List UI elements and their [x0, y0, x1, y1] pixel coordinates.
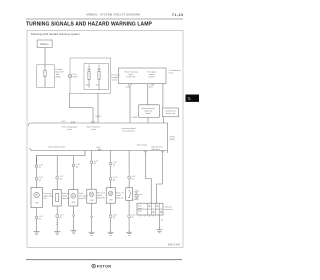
connector C-01 on relay box edge: [68, 74, 78, 79]
lamp L5 label: [116, 192, 124, 200]
wire battery feed: [44, 48, 46, 71]
svg-text:Battery: Battery: [40, 42, 49, 46]
svg-text:21W: 21W: [109, 200, 113, 202]
svg-text:EW71-043: EW71-043: [168, 242, 181, 246]
svg-text:AIRBAG · SYSTEM CIRCUIT DIAGRA: AIRBAG · SYSTEM CIRCUIT DIAGRAM: [86, 13, 141, 17]
lamp L3 front turn LH: [69, 190, 78, 207]
connector C-05: [35, 177, 43, 182]
connector marks on rail B at x145: [144, 151, 147, 153]
harness label instrument: [121, 127, 136, 133]
wire col4: [91, 151, 93, 190]
svg-text:No.4: No.4: [86, 85, 90, 87]
wire col4 lower: [91, 203, 93, 232]
harness label front: [62, 126, 78, 132]
svg-text:panel: panel: [91, 129, 96, 131]
section index tab: [186, 95, 200, 102]
svg-text:21W: 21W: [90, 200, 94, 202]
diagram frame: [27, 30, 183, 247]
svg-text:0.85R: 0.85R: [73, 77, 79, 79]
ground G2: [54, 232, 60, 235]
connector C-22: [109, 162, 117, 167]
splice dots col2: [57, 222, 58, 223]
svg-text:(2): (2): [113, 165, 116, 167]
harness label main: [87, 126, 101, 132]
connector C-26: [109, 215, 117, 220]
ground G4: [89, 232, 95, 235]
svg-text:FOTON: FOTON: [97, 265, 112, 269]
wire switch to flasher: [162, 84, 164, 108]
connector C-33: [128, 215, 136, 220]
svg-text:Showing and hazard warning sys: Showing and hazard warning system: [31, 32, 81, 36]
junction table pin ticks: [141, 215, 153, 217]
switch S1 label: [134, 191, 143, 202]
connector stub B-04: [126, 84, 131, 89]
lamp L3 label: [79, 192, 88, 200]
connector tick col4: [91, 216, 93, 218]
svg-text:lamp LH: lamp LH: [79, 198, 87, 200]
fuse box label: [112, 74, 120, 81]
wire col5 lower: [110, 203, 112, 232]
svg-text:(2): (2): [39, 167, 42, 169]
svg-text:lamp: lamp: [138, 210, 142, 212]
svg-text:lamp LH: lamp LH: [116, 198, 124, 200]
footer rule: [26, 259, 182, 261]
svg-text:(RH side): (RH side): [152, 149, 160, 151]
connector C-24: [109, 177, 117, 182]
svg-text:Main wiring harness: Main wiring harness: [49, 145, 66, 148]
lamp L4 rear turn RH: [87, 189, 96, 203]
svg-text:21W: 21W: [71, 202, 75, 204]
wire col3 lower: [73, 206, 75, 231]
svg-text:No.7: No.7: [96, 85, 100, 87]
svg-text:(timer): (timer): [145, 112, 151, 115]
svg-text:(W): (W): [135, 198, 138, 200]
hazard warning relay box: [139, 105, 160, 118]
switch box right note: [169, 69, 182, 75]
wire switch to rail A: [129, 85, 131, 123]
svg-text:(2): (2): [131, 217, 134, 219]
fusible link value label: [56, 69, 64, 79]
header rule: [26, 18, 183, 20]
connector C-13: [56, 214, 64, 219]
drop wires label: [135, 191, 139, 201]
svg-text:(R-B): (R-B): [56, 76, 61, 78]
switch S1: [126, 188, 133, 201]
wire col3 upper: [73, 156, 75, 190]
wire switch to hazard relay: [147, 84, 149, 105]
wire drop A to junction table: [146, 152, 152, 203]
svg-text:room): room): [112, 79, 118, 81]
wire col2 lower: [56, 206, 58, 232]
svg-text:meter: meter: [169, 72, 174, 75]
rail C lamp feeder: [37, 151, 86, 167]
wire col6: [128, 151, 130, 188]
fusible link FL1: [44, 71, 46, 77]
wire col1 upper: [36, 156, 38, 188]
ground G1: [34, 232, 40, 235]
wire drop B to junction table: [157, 152, 163, 203]
svg-text:71-43: 71-43: [172, 13, 183, 17]
connector tick col3: [73, 215, 75, 217]
connector C-31: [128, 176, 136, 181]
svg-text:panel: panel: [67, 129, 72, 131]
svg-text:B-04: B-04: [126, 87, 130, 89]
relay box (engine compartment): [70, 58, 111, 93]
svg-text:connector: connector: [165, 208, 174, 211]
lamp L1 front turn RH: [31, 188, 43, 208]
connector marks on rail A at x73: [72, 121, 75, 123]
rail B connector B-22: [97, 147, 101, 150]
combination flasher box: [163, 108, 179, 117]
rail B label rh: [152, 146, 163, 152]
fuse F1 10A: [86, 65, 91, 88]
svg-text:0.85W: 0.85W: [95, 116, 101, 118]
footer logo mark: [92, 264, 96, 268]
svg-text:flasher unit: flasher unit: [166, 112, 176, 115]
lamp L4 label: [97, 192, 105, 200]
svg-text:0.5GW: 0.5GW: [131, 117, 137, 119]
svg-text:(2): (2): [113, 217, 116, 219]
connector C-21: [90, 161, 98, 166]
wire col1 lower: [36, 208, 38, 232]
lamp L2 side turn RH: [53, 190, 62, 207]
rail A harness line: [28, 123, 168, 126]
combination switch box: [119, 68, 167, 84]
connector C-11: [56, 176, 63, 181]
svg-text:(2): (2): [39, 180, 42, 182]
svg-text:B-22: B-22: [97, 147, 101, 149]
connector C-04: [72, 164, 80, 169]
svg-text:lamp RH: lamp RH: [97, 198, 105, 200]
svg-text:Rear wiring: Rear wiring: [137, 144, 147, 147]
svg-text:B-01: B-01: [62, 121, 66, 123]
lamp L2 label: [62, 192, 70, 200]
ground G6: [126, 232, 132, 235]
junction table label: [165, 206, 174, 212]
svg-text:<L:N:R>: <L:N:R>: [148, 76, 156, 79]
svg-text:wiring harness: wiring harness: [122, 130, 134, 133]
connector marks on rail A at x93: [92, 121, 95, 123]
ground G3: [71, 231, 77, 234]
wire col6 lower: [128, 200, 130, 232]
wire fuse F2 to rail A: [97, 93, 99, 123]
wire fusible link to box bottom: [44, 77, 46, 88]
svg-text:<OFF:ON>: <OFF:ON>: [126, 76, 136, 79]
svg-text:Junction: Junction: [165, 206, 172, 209]
wire table to ground: [159, 215, 161, 230]
svg-text:71: 71: [187, 97, 191, 101]
junction connector table: [137, 203, 163, 215]
wire rail A to rail B: [166, 123, 168, 151]
svg-text:(2): (2): [131, 179, 134, 181]
svg-text:(2): (2): [39, 219, 42, 221]
fuse box (inner): [84, 64, 109, 90]
lamp L1 label: [44, 192, 54, 200]
svg-text:(2): (2): [76, 166, 79, 168]
connector C-03: [35, 165, 43, 170]
svg-text:21W: 21W: [35, 203, 39, 205]
wire flasher to rail A: [163, 117, 165, 123]
lamp L5 rear turn LH: [106, 188, 115, 203]
svg-text:(B-W): (B-W): [170, 139, 175, 141]
wire label 0.85GB: [170, 136, 176, 141]
wire col5: [110, 151, 112, 188]
fuse F2 15A: [96, 65, 101, 91]
battery B1: [37, 40, 52, 48]
svg-text:(2): (2): [113, 180, 116, 182]
svg-text:B-05: B-05: [149, 87, 153, 89]
connector C-07: [35, 216, 43, 221]
ground G7: [157, 230, 163, 233]
svg-text:(2): (2): [94, 163, 97, 165]
ground G5: [108, 232, 114, 235]
fusible link box: [37, 65, 55, 88]
wire col2 upper: [56, 156, 58, 190]
connector stub B-05: [149, 84, 154, 89]
wire L from relay box to rail A: [69, 93, 93, 123]
wire hazard relay to rail A: [147, 117, 149, 123]
rail B harness line: [30, 148, 168, 153]
svg-text:TURNING SIGNALS AND HAZARD WAR: TURNING SIGNALS AND HAZARD WARNING LAMP: [26, 21, 152, 27]
connector marks on rail B at x162: [161, 151, 164, 153]
